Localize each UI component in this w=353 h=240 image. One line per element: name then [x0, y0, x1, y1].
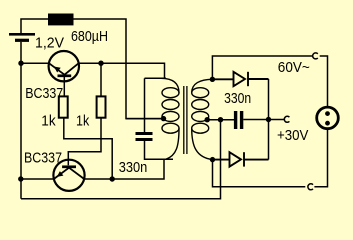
- svg-text:1,2V: 1,2V: [35, 34, 64, 51]
- wire Q2 collector row to primary bottom: [84, 159, 164, 179]
- wire bottom plug to socket: [314, 129, 327, 187]
- wire D1 cathode down to +30V node: [268, 79, 270, 120]
- battery B1 bottom plate: [15, 39, 29, 42]
- output socket symbol: [317, 107, 339, 129]
- junction node Q2 collector row / line A: [110, 176, 115, 181]
- capacitor C2 330n plates: [234, 111, 237, 129]
- svg-text:330n: 330n: [119, 159, 148, 176]
- junction node ground rail tee: [218, 117, 223, 122]
- diode D1: [212, 72, 268, 86]
- wire Q1 emitter row: [21, 62, 49, 64]
- junction node rail / Q2 emitter: [18, 176, 23, 181]
- plug hook top 60V: [313, 53, 318, 59]
- capacitor C1 330n plates: [136, 132, 153, 135]
- transformer T1 core: [184, 86, 187, 154]
- wire Q1 collector row to transformer primary top: [79, 63, 165, 78]
- svg-text:+30V: +30V: [277, 127, 308, 144]
- plug hook +30V terminal: [284, 116, 289, 122]
- wire D2 cathode up to +30V node: [268, 120, 270, 160]
- plug hook bottom 60V: [308, 184, 313, 190]
- svg-text:1k: 1k: [41, 113, 56, 130]
- transformer T1 secondary winding: [192, 79, 213, 159]
- capacitor C1 330n vertical lead top: [144, 78, 146, 132]
- wire left rail battery minus down to bottom rail: [20, 42, 22, 199]
- junction node primary center tap: [161, 116, 166, 121]
- svg-text:1k: 1k: [76, 113, 90, 130]
- junction node secondary bottom: [210, 157, 215, 162]
- junction node collector row / R2: [98, 61, 103, 66]
- resistor R2 1k: [97, 96, 106, 117]
- wire secondary top to 60V~ output: [212, 56, 312, 79]
- wire top rail from battery to inductor and down to center tap feed: [21, 19, 164, 119]
- resistor R1 1k: [59, 96, 68, 117]
- junction node secondary top: [210, 77, 215, 82]
- inductor L1 680uH (filled rectangle): [48, 14, 74, 26]
- wire secondary tap row to C2: [207, 119, 234, 121]
- transistor Q1 BC337 (top): [49, 51, 79, 96]
- wire primary center tap: [126, 118, 164, 120]
- transformer T1 primary winding: [161, 78, 179, 159]
- capacitor C1 lead bottom and row to primary bottom: [145, 141, 174, 159]
- svg-text:680µH: 680µH: [71, 28, 108, 45]
- junction node battery/Q1 emitter: [18, 61, 23, 66]
- diode D2: [213, 152, 269, 166]
- battery B1 1,2V top plate: [9, 33, 35, 36]
- svg-text:BC337: BC337: [24, 149, 62, 166]
- wire R1 bottom to Q2 collector row (line A): [64, 118, 112, 179]
- wire secondary bottom to 60V~ bottom: [213, 160, 306, 187]
- junction node +30V: [266, 117, 271, 122]
- transistor Q2 BC337 (bottom): [53, 160, 84, 191]
- wire R2 top to collector row: [100, 63, 102, 96]
- wire R2 bottom to Q2 base (line B): [68, 118, 101, 166]
- wire primary top horizontal: [145, 77, 167, 79]
- svg-text:BC337: BC337: [25, 85, 63, 102]
- svg-text:330n: 330n: [224, 90, 251, 107]
- junction node secondary tap: [205, 117, 210, 122]
- wire bottom ground rail: [21, 120, 221, 199]
- wire top plug to socket: [320, 56, 328, 107]
- wire C2 to +30V node and terminal: [243, 119, 285, 121]
- svg-text:60V~: 60V~: [278, 59, 310, 76]
- wire Q2 emitter row: [21, 178, 54, 180]
